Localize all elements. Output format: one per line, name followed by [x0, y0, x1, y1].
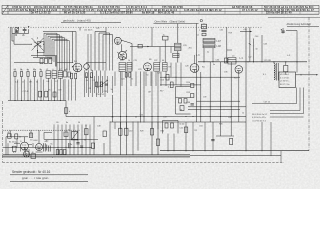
resistor R5: [40, 72, 42, 77]
wire: [160, 72, 162, 87]
svg-text:Sender gedruckt : Nr 40.16: Sender gedruckt : Nr 40.16: [12, 170, 50, 174]
wire: [34, 77, 36, 101]
junction: [168, 150, 169, 151]
svg-text:C23: C23: [138, 69, 141, 71]
svg-text:50: 50: [36, 82, 38, 84]
wire: [114, 72, 116, 87]
svg-text:50: 50: [147, 75, 149, 77]
resistor Rb: [64, 108, 67, 114]
svg-text:C44: C44: [255, 36, 258, 38]
svg-text:747 748: 747 748: [264, 60, 272, 62]
IF transformer IIa winding: [175, 43, 182, 46]
junction: [125, 115, 128, 118]
svg-text:R14: R14: [187, 82, 190, 84]
small parts bottom-left: [13, 129, 107, 152]
capacitor C3: [24, 27, 26, 29]
capacitor box row2 b: [45, 91, 48, 97]
svg-text:C47 1k: C47 1k: [264, 102, 270, 104]
extra knot labels: [89, 59, 152, 93]
resistor R1: [14, 72, 16, 77]
row A labels above: [14, 69, 68, 71]
hexode section V2b (mixer): [118, 51, 126, 59]
wire to V1: [57, 62, 73, 64]
wire: [9, 27, 11, 100]
wire: [65, 101, 67, 117]
svg-text:C2: C2: [93, 80, 95, 82]
svg-text:G1: G1: [30, 140, 33, 142]
junction: [66, 147, 67, 148]
wire coil-pack loop 6: [54, 41, 70, 71]
junction: [54, 100, 55, 101]
wire bus y139.3: [44, 138, 92, 140]
parts-list table row 2 text: [9, 8, 314, 12]
wire IFT top lead: [177, 24, 179, 44]
table-to-frame line right: [268, 16, 320, 18]
svg-text:R16: R16: [161, 80, 164, 82]
junction: [34, 100, 35, 101]
IF coil pack L3d: [163, 63, 168, 72]
switch box 2: [171, 123, 174, 128]
labels top right wires: [199, 29, 258, 38]
wire: [175, 63, 177, 85]
svg-text:I-48: I-48: [217, 45, 222, 48]
wire: [261, 122, 263, 151]
pot tap box 2: [184, 99, 187, 104]
wire: [197, 100, 241, 102]
wire: [47, 78, 49, 100]
wire: [24, 137, 26, 142]
wire IFT bottom lead: [177, 51, 179, 63]
coil L2b: [52, 71, 57, 78]
second section of V1: [84, 64, 90, 70]
wire: [92, 71, 94, 98]
capacitor C55: [211, 140, 214, 141]
switch S1 wiper arrow 1: [34, 43, 41, 47]
svg-text:25: 25: [21, 70, 23, 72]
capacitor C2 plates: [15, 31, 19, 34]
wire: [188, 106, 246, 108]
wire long vertical at x76: [75, 32, 77, 71]
resistor R7: [75, 73, 77, 79]
svg-text:6k: 6k: [106, 80, 108, 82]
svg-text:L2: L2: [46, 69, 48, 71]
svg-text:R28: R28: [140, 131, 143, 133]
wire: [73, 125, 75, 155]
svg-text:C11 6k 2n: C11 6k 2n: [84, 30, 92, 32]
junction: [246, 150, 247, 151]
junction: [285, 61, 286, 62]
tone control box outline: [163, 121, 179, 134]
svg-text:6,3: 6,3: [13, 152, 16, 154]
resistor R13: [100, 82, 102, 87]
wire switch output stubs: [31, 55, 55, 57]
wire bus y116.5: [66, 116, 246, 118]
wire C2 stub: [16, 30, 18, 31]
wire: [249, 27, 251, 62]
wire: [71, 79, 73, 101]
top boundary wire (dotted): [8, 26, 262, 28]
junction: [41, 100, 42, 101]
wire bus y77: [160, 76, 240, 78]
svg-text:Abstimmung behindert: Abstimmung behindert: [287, 23, 312, 26]
wire coil-pack loop 3: [48, 36, 62, 70]
pentode V3 (IF amplifier): [190, 64, 199, 73]
wire: [226, 27, 228, 62]
svg-text:0,35 220 6a 604 18 31: 0,35 220 6a 604 18 31: [184, 8, 212, 12]
wire: [112, 95, 114, 122]
svg-text:0.1 47 w8: 0.1 47 w8: [280, 77, 290, 79]
wire comb mid: [86, 76, 112, 93]
parts-list table row 3 text: [31, 11, 292, 15]
svg-text:C48: C48: [97, 126, 100, 128]
wire: [89, 125, 91, 155]
parts-list table column dividers: [30, 5, 300, 14]
junction: [253, 61, 254, 62]
screen can V2c: [144, 63, 152, 71]
wire chain bottom lead: [203, 48, 205, 62]
wire: [212, 48, 214, 62]
svg-text:6a 604 18: 6a 604 18: [142, 11, 155, 15]
wire: [84, 71, 86, 98]
junction: [261, 61, 262, 62]
wire: [167, 134, 169, 151]
svg-text:220 6a 604 18 31 40: 220 6a 604 18 31 40: [266, 11, 292, 15]
junction: [296, 61, 297, 62]
wire mixer hook 1: [95, 32, 106, 71]
wire chain top lead: [203, 22, 205, 25]
wire: [64, 79, 66, 101]
duodiode V4: [235, 66, 243, 74]
wire: [77, 125, 79, 155]
coupling box C10: [138, 44, 142, 48]
svg-text:38 0.35 k6 1a 52: 38 0.35 k6 1a 52: [252, 114, 268, 116]
wire HT bus: [198, 61, 307, 63]
svg-text:25: 25: [49, 90, 51, 92]
svg-text:66 a4 1k C4 0,35: 66 a4 1k C4 0,35: [64, 11, 86, 15]
resistor R4: [33, 72, 35, 77]
wire coil-pack loop 2: [46, 35, 60, 71]
trimmer box: [202, 33, 206, 36]
grid arrow V2 1: [117, 52, 126, 58]
coil L2a: [46, 71, 51, 78]
svg-text:47 1,5 25 12: 47 1,5 25 12: [242, 8, 258, 12]
wire long vertical x152: [151, 72, 153, 117]
svg-text:Oren Weis . (Stand Seite): Oren Weis . (Stand Seite): [155, 19, 186, 23]
magic eye V6: [36, 144, 43, 151]
chassis bus lower: [3, 156, 191, 158]
resistor on y85 wire: [170, 82, 173, 88]
svg-text:C7: C7: [59, 69, 61, 71]
svg-text:40: 40: [135, 117, 137, 119]
junction: [226, 61, 227, 62]
switch S1 contact dots: [30, 43, 33, 46]
wire: [69, 125, 71, 155]
svg-text:50: 50: [256, 49, 258, 51]
switch S1 wiper arrow 2: [34, 42, 41, 46]
svg-text:R15: R15: [187, 92, 190, 94]
svg-text:C39: C39: [203, 97, 206, 99]
wire: [57, 125, 59, 155]
wire: [130, 72, 132, 87]
junction: [247, 61, 248, 62]
IF coil pack L3b: [127, 63, 132, 72]
junction: [193, 150, 194, 151]
resistor R6: [71, 73, 73, 79]
underline of gedruckt note: [61, 22, 121, 24]
wire bus y85: [160, 84, 201, 86]
svg-text:C31: C31: [104, 91, 107, 93]
small box row A x68: [68, 72, 71, 77]
wire: [155, 72, 157, 87]
small box with label: [163, 36, 169, 40]
junction: [21, 100, 22, 101]
underline note 2: [10, 181, 88, 183]
oscillator coil box: [38, 42, 45, 53]
anode plates of V6: [44, 143, 47, 151]
wire: [150, 72, 152, 87]
svg-text:80 57 2 8a: 80 57 2 8a: [280, 84, 290, 86]
resistor R30: [150, 129, 153, 136]
svg-text:C6: C6: [56, 122, 58, 124]
wire coil-pack loop 4: [50, 38, 65, 71]
resistor R21: [15, 134, 18, 139]
wire bus y100.5: [8, 100, 66, 102]
junction: [199, 115, 202, 118]
svg-text:2o: 2o: [207, 52, 209, 54]
svg-text:50: 50: [78, 122, 80, 124]
capacitor C50 box: [119, 128, 122, 135]
svg-text:C42: C42: [248, 57, 251, 59]
svg-text:R18: R18: [234, 78, 237, 80]
svg-text:k2 09 5u 1: k2 09 5u 1: [280, 74, 290, 76]
resistor R11: [129, 73, 131, 78]
wire short stubs top: [12, 27, 232, 62]
resistor R2: [20, 72, 22, 77]
wire: [126, 117, 128, 155]
wire bottom right bus: [160, 150, 309, 152]
junction: [219, 115, 222, 118]
svg-text:6b: 6b: [112, 117, 114, 119]
rectifier V5: [21, 142, 29, 150]
svg-text:C18: C18: [120, 60, 123, 62]
wire: [38, 130, 40, 143]
junction: [220, 106, 221, 107]
wire: [21, 77, 23, 101]
wire: [188, 108, 240, 110]
parts-list table row 1 text: [12, 5, 314, 9]
svg-text:C41: C41: [228, 117, 231, 119]
wire to dial lamp: [296, 74, 318, 76]
capacitor C30: [105, 84, 108, 85]
pot tap box 1: [179, 99, 182, 104]
svg-text:C28: C28: [185, 66, 188, 68]
wire: [200, 72, 202, 122]
junction: [119, 115, 122, 118]
svg-text:C52: C52: [180, 128, 183, 130]
underline of Abstimmung note: [287, 25, 319, 27]
svg-text:3n: 3n: [91, 70, 93, 72]
svg-text:R4: R4: [202, 67, 204, 69]
wire: [270, 116, 304, 118]
resistor on y77 wire: [166, 74, 169, 80]
triode V1 (RF amplifier): [73, 63, 82, 72]
svg-text:2n: 2n: [131, 79, 133, 81]
wire: [245, 27, 247, 151]
junction: [210, 106, 211, 107]
wire connector leg 1: [252, 88, 297, 104]
resistor R20: [284, 65, 288, 71]
junction: [143, 115, 146, 118]
wire: [6, 136, 28, 138]
svg-text:C30 C31: C30 C31: [96, 94, 105, 96]
coil L4 pack: [228, 58, 236, 65]
underline of Oren-Weis note: [154, 23, 199, 25]
wire: [131, 44, 133, 71]
junction: [15, 100, 16, 101]
IF transformer II lower box: [173, 53, 179, 57]
svg-text:0,1 8,2 2x40 b2 507 38 90: 0,1 8,2 2x40 b2 507 38 90: [100, 11, 133, 15]
wire main vertical x196.5: [196, 23, 198, 122]
wire: [173, 134, 175, 151]
wire: [204, 122, 206, 151]
wire: [53, 125, 55, 155]
svg-text:gedruckt . (stand 40): gedruckt . (stand 40): [63, 18, 91, 22]
connector box bottom left: [31, 154, 36, 159]
junction: [19, 136, 20, 137]
svg-text:C24: C24: [121, 79, 124, 81]
wire: [220, 62, 222, 122]
svg-text:8o: 8o: [84, 140, 86, 142]
fuse box: [8, 134, 12, 138]
wire mixer hook 2: [99, 33, 110, 71]
junction: [157, 115, 160, 118]
junction: [28, 100, 29, 101]
svg-text:3n 47 1,5 25 12: 3n 47 1,5 25 12: [31, 11, 51, 15]
svg-text:R17: R17: [160, 91, 163, 93]
wire comb left: [18, 80, 69, 101]
triode section V2a (oscillator): [114, 37, 121, 44]
wire: [296, 31, 298, 73]
svg-text:C19: C19: [58, 90, 61, 92]
wire antenna down-lead: [11, 27, 13, 41]
output transformer primary winding: [274, 64, 275, 80]
trimmer tick: [249, 43, 251, 45]
wire vertical pair x55: [54, 55, 56, 67]
wire: [135, 72, 137, 87]
stray small labels row A: [14, 35, 267, 159]
IF transformer IIb winding: [175, 47, 182, 50]
svg-text:1,5 25 12: 1,5 25 12: [210, 8, 222, 12]
wire: [238, 73, 240, 122]
svg-text:C9: C9: [85, 70, 87, 72]
capacitor C38: [191, 104, 194, 105]
pot tap box 3: [180, 106, 184, 111]
wire: [27, 77, 29, 101]
chassis bus upper: [3, 154, 191, 156]
svg-text:b: b: [69, 111, 70, 113]
junction: [174, 150, 175, 151]
coil row boxes under switch: [40, 58, 43, 63]
junction: [237, 115, 240, 118]
wire: [286, 30, 297, 32]
wire V2 internal: [121, 44, 123, 51]
connector block outline: [279, 72, 296, 88]
junction: [111, 115, 114, 118]
wire: [185, 122, 187, 151]
wire bus y147.3: [3, 146, 92, 148]
resistor R8: [86, 73, 88, 78]
wire: [88, 71, 90, 98]
svg-text:1k: 1k: [86, 80, 88, 82]
junction: [273, 61, 274, 62]
svg-text:C8: C8: [34, 70, 36, 72]
bottom-right label rows: [252, 114, 268, 122]
wire coil-pack loop 5: [52, 39, 67, 70]
junction: [203, 61, 204, 62]
trimmer block top: [202, 24, 207, 29]
svg-text:1k: 1k: [27, 70, 29, 72]
svg-text:0.35 k6 1a 52 b: 0.35 k6 1a 52 b: [252, 117, 267, 119]
wire antenna coupling 1: [87, 34, 89, 71]
wire: [285, 72, 287, 75]
svg-text:grun . . . / rote grun: grun . . . / rote grun: [22, 176, 49, 180]
underline note 1: [10, 174, 88, 176]
wire: [230, 62, 232, 122]
junction: [139, 115, 142, 118]
svg-text:0.1: 0.1: [168, 87, 171, 89]
junction: [60, 100, 61, 101]
svg-text:C53: C53: [199, 126, 202, 128]
wire: [253, 39, 255, 62]
svg-text:C12: C12: [96, 28, 99, 30]
diagonal jumper wire: [97, 80, 108, 88]
svg-text:40: 40: [162, 60, 164, 62]
electrolytic capacitor bank: [49, 146, 51, 152]
wire vertical x271: [270, 122, 272, 156]
wire long vertical x158: [157, 72, 159, 117]
wire: [120, 117, 122, 155]
mains transformer box: [72, 132, 78, 140]
IF coil pack L3a: [119, 63, 126, 72]
coil L2c: [58, 71, 63, 78]
svg-text:C1: C1: [197, 35, 199, 37]
wire: [14, 77, 16, 101]
junction dots y77: [165, 77, 166, 78]
svg-text:6: 6: [53, 69, 54, 71]
wire: [85, 125, 87, 155]
svg-text:R8: R8: [149, 59, 151, 61]
wire antenna horizontal: [12, 32, 29, 34]
svg-text:C32: C32: [220, 30, 223, 32]
wire verticals below y112: [115, 122, 158, 129]
wire vertical pair x140-144: [140, 72, 142, 123]
band switch S1 wafer: [32, 38, 44, 51]
svg-text:C44: C44: [163, 117, 166, 119]
antenna arrow symbol: [28, 29, 30, 33]
junction: [230, 115, 233, 118]
junction: [48, 100, 49, 101]
wire: [151, 117, 153, 155]
trimmer capacitor C1: [15, 28, 19, 31]
svg-text:R19: R19: [229, 33, 232, 35]
svg-text:6e 40: 6e 40: [180, 124, 185, 126]
wire coil-pack loop 1: [44, 33, 57, 70]
left frame (dash-dot): [2, 101, 4, 162]
wire dotted y130: [3, 129, 81, 131]
resistor R33: [230, 139, 233, 145]
IF transformer I-48 winding: [203, 44, 215, 48]
junction: [82, 147, 83, 148]
